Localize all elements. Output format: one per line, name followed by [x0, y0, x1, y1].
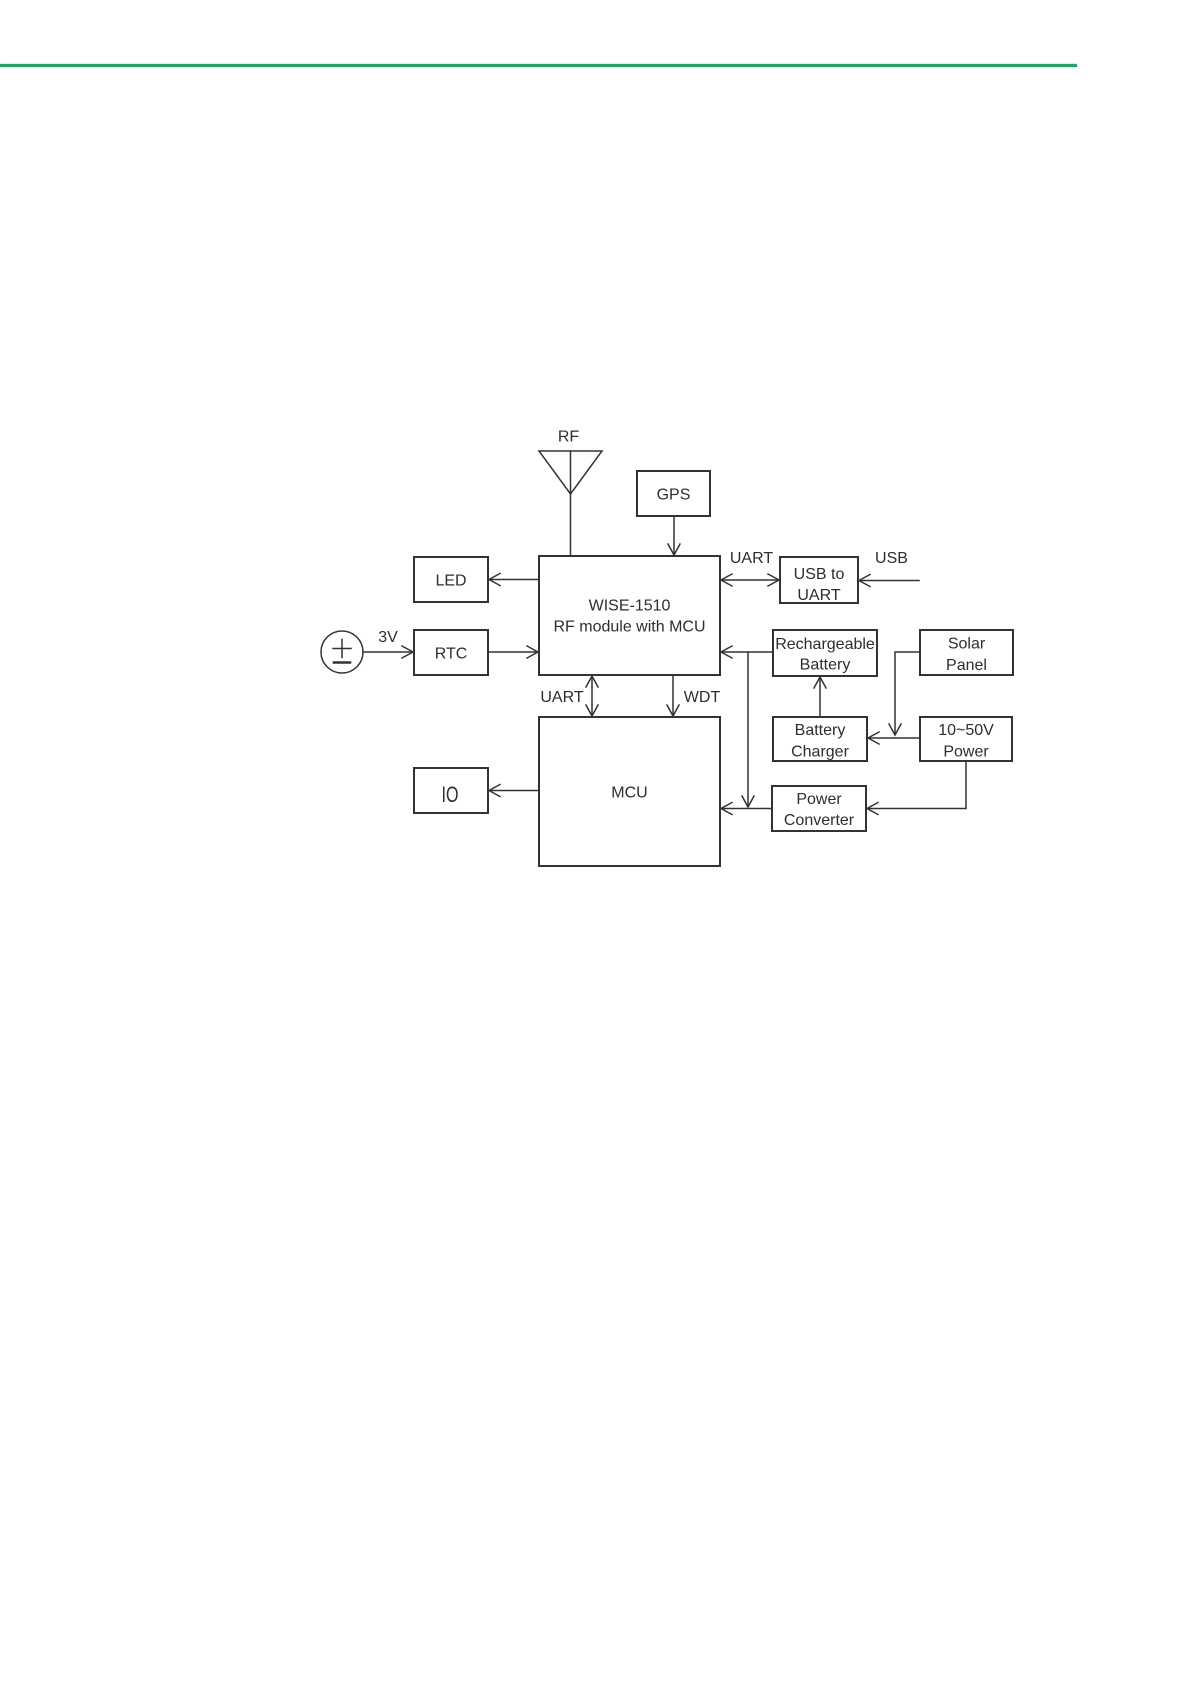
box LED: [414, 557, 488, 602]
wire 10~50V Power to Battery Charger: [869, 737, 920, 739]
arrowhead left into LED: [489, 574, 500, 586]
svg-text:10~50V: 10~50V: [938, 722, 994, 739]
wire RTC to WISE: [488, 651, 537, 653]
arrowhead up into WISE (UART): [586, 676, 598, 687]
svg-text:Battery: Battery: [795, 722, 846, 739]
box RTC: [414, 630, 488, 675]
svg-text:Power: Power: [943, 744, 989, 761]
wire 10~50V Power bottom to Power Converter: [868, 761, 966, 809]
wire WDT WISE to MCU: [672, 675, 674, 715]
arrowhead right into WISE: [527, 646, 538, 658]
arrowhead down into MCU (WDT): [667, 705, 679, 716]
wire antenna to WISE top: [570, 451, 572, 556]
antenna RF symbol: [539, 451, 602, 494]
box 10~50V Power: [920, 717, 1012, 761]
arrowhead right into USB-to-UART: [768, 574, 779, 586]
svg-text:Battery: Battery: [800, 657, 851, 674]
svg-text:Rechargeable: Rechargeable: [775, 636, 875, 653]
arrowhead left into Power Converter: [867, 803, 878, 815]
wire MCU to IO: [490, 790, 539, 792]
svg-text:IO: IO: [442, 782, 459, 807]
wire Solar Panel down to charger line: [895, 652, 920, 733]
wire battery to RTC, 3V: [363, 651, 412, 653]
svg-text:3V: 3V: [378, 629, 398, 646]
wire Power Converter to MCU: [722, 808, 772, 810]
svg-text:RF: RF: [558, 429, 580, 446]
svg-text:RF module with MCU: RF module with MCU: [553, 619, 705, 636]
svg-text:UART: UART: [730, 550, 773, 567]
svg-text:USB to: USB to: [794, 566, 845, 583]
svg-text:MCU: MCU: [611, 785, 647, 802]
svg-text:WDT: WDT: [684, 689, 721, 706]
box WISE-1510 RF module with MCU: [539, 556, 720, 675]
box MCU: [539, 717, 720, 866]
arrowhead down into WISE (GPS): [668, 544, 680, 555]
svg-text:RTC: RTC: [435, 646, 468, 663]
wire GPS to WISE: [673, 516, 675, 554]
arrowhead up into Rechargeable Battery: [814, 677, 826, 688]
box Power Converter: [772, 786, 866, 831]
arrowhead left into Battery Charger: [868, 732, 879, 744]
svg-text:UART: UART: [540, 689, 583, 706]
wire UART double arrow WISE to USB-to-UART: [722, 579, 778, 581]
box Solar Panel: [920, 630, 1013, 675]
svg-text:LED: LED: [435, 573, 466, 590]
wire Battery Charger to Rechargeable Battery: [819, 678, 821, 717]
arrowhead down at converter line: [742, 796, 754, 807]
box IO: [414, 768, 488, 813]
svg-text:Power: Power: [796, 791, 842, 808]
arrowhead left into WISE (UART): [721, 574, 732, 586]
wire USB into USB-to-UART: [860, 580, 919, 582]
svg-text:UART: UART: [797, 587, 840, 604]
svg-text:WISE-1510: WISE-1510: [589, 598, 671, 615]
svg-text:Panel: Panel: [946, 657, 987, 674]
svg-text:Solar: Solar: [948, 636, 986, 653]
arrowhead left into USB-to-UART (USB): [859, 575, 870, 587]
arrowhead down into MCU (UART): [586, 705, 598, 716]
battery source circle: [321, 631, 363, 673]
svg-text:Charger: Charger: [791, 744, 849, 761]
green header rule: [0, 64, 1077, 66]
arrowhead right into RTC: [402, 646, 413, 658]
svg-text:GPS: GPS: [657, 487, 691, 504]
arrowhead down at charger line: [889, 724, 901, 735]
svg-text:Converter: Converter: [784, 812, 855, 829]
box GPS: [637, 471, 710, 516]
arrowhead left into MCU: [721, 803, 732, 815]
svg-text:USB: USB: [875, 550, 908, 567]
wire WISE to LED: [490, 579, 539, 581]
box Rechargeable Battery: [773, 630, 877, 676]
arrowhead left into IO: [489, 785, 500, 797]
wire Rechargeable Battery to WISE: [722, 651, 773, 653]
arrowhead left into WISE (power): [721, 646, 732, 658]
wire junction down to power converter line: [747, 652, 749, 805]
box USB to UART: [780, 557, 858, 603]
wire UART double arrow WISE-MCU: [591, 677, 593, 715]
box Battery Charger: [773, 717, 867, 761]
battery plus-minus mark: [333, 640, 351, 658]
